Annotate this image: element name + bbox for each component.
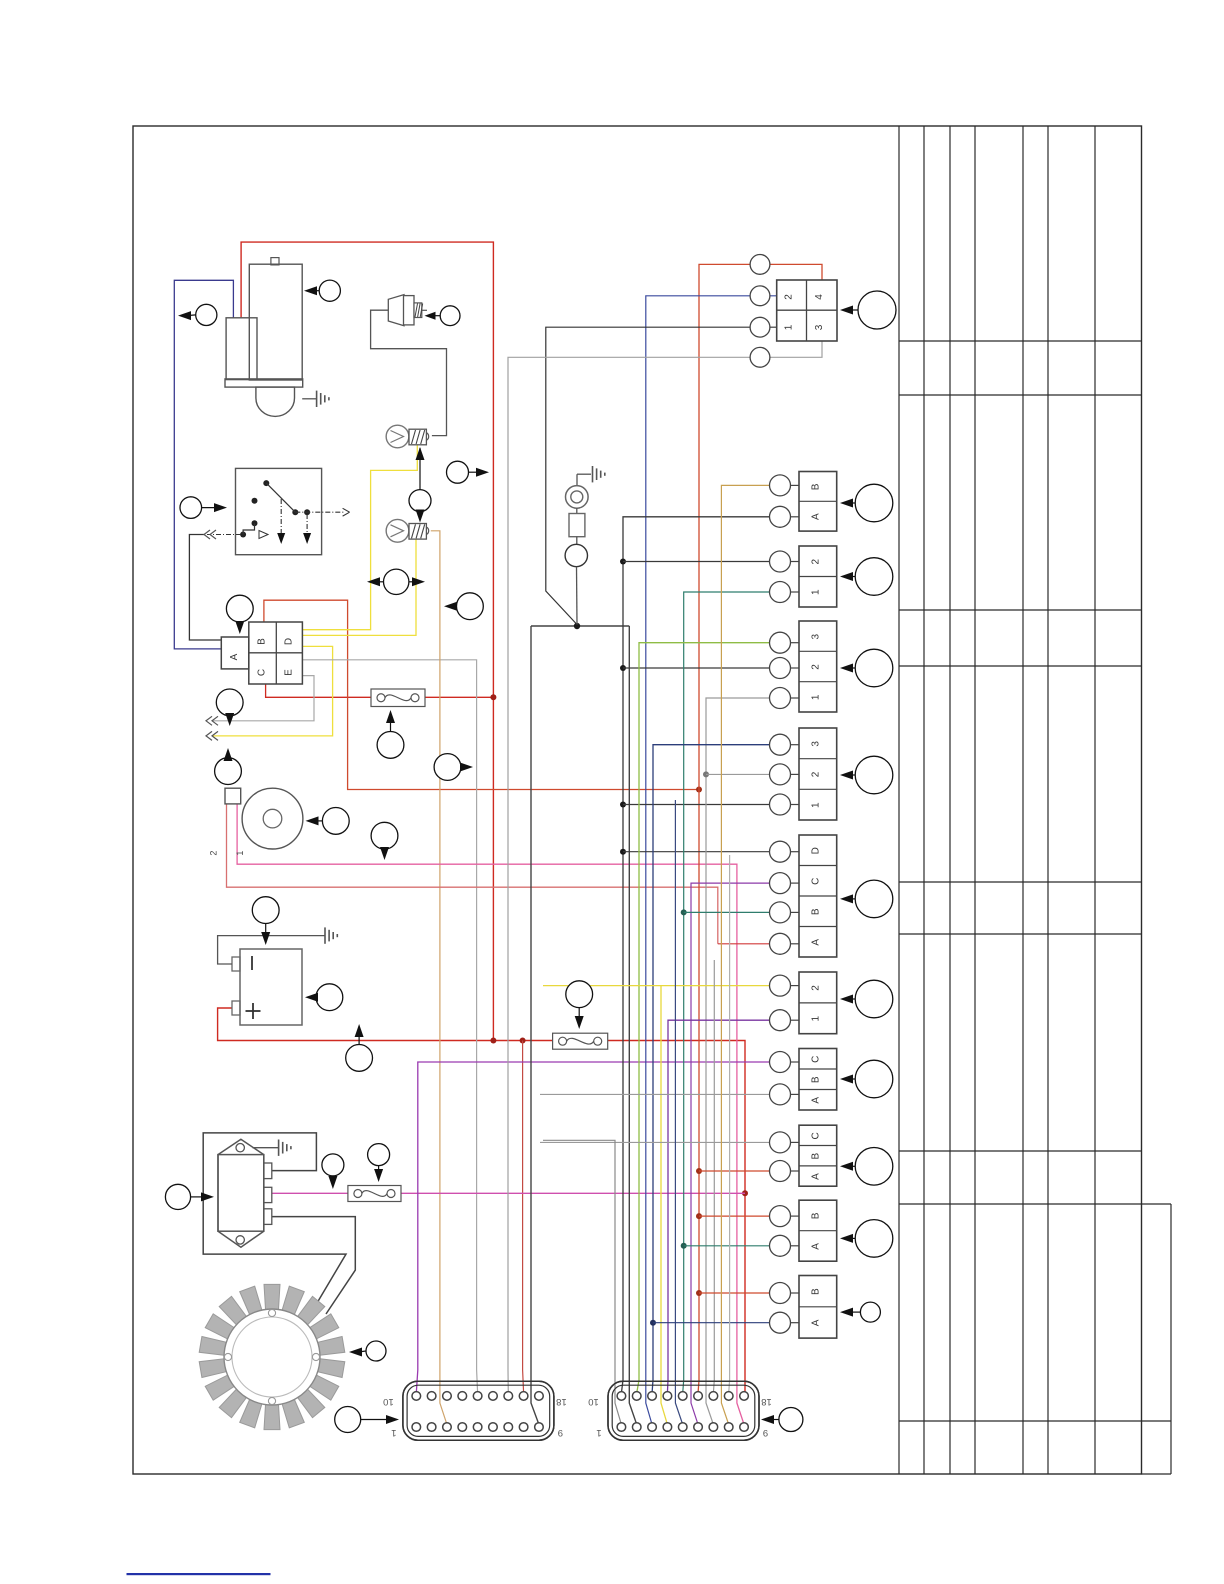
callout: spark plug — [425, 306, 461, 326]
callout: gray stub — [216, 689, 243, 726]
wire: gray run into CN13 top pin 7 — [712, 960, 715, 1393]
regulator/rectifier — [218, 1139, 272, 1247]
fuse F1 — [371, 689, 425, 707]
callout: red main wire — [447, 461, 490, 483]
callout: starter solenoid wire — [178, 304, 217, 325]
wire: pink regulator output through fuse — [272, 1192, 348, 1194]
connector CN8 (A-B-C) — [799, 1049, 837, 1111]
wire: blue starter solenoid — [174, 280, 233, 649]
wire: red fuse branch from connector C — [266, 684, 371, 697]
ignition coil 1 (bulb symbol) — [386, 425, 429, 448]
wire: gray CN1 pin3 — [770, 341, 822, 357]
wire: navy run into CN13 — [675, 800, 682, 1425]
starter motor ground wire — [302, 398, 316, 400]
regulator ground wire — [253, 1147, 279, 1149]
ignition coil 2 (bulb symbol) — [386, 519, 429, 542]
wire: ground bus (U-run to both harness connectors) — [531, 625, 629, 627]
callout: ignition switch — [180, 497, 227, 519]
bullet connectors at CN1 — [750, 255, 770, 275]
wire: tan CN2 pin B — [721, 485, 769, 1424]
svg-text:A: A — [811, 1097, 822, 1104]
svg-text:10: 10 — [383, 1396, 394, 1407]
wire: black ignition switch to connector A — [189, 535, 221, 641]
18-pin connector shells — [403, 1381, 554, 1440]
svg-text:2: 2 — [208, 851, 218, 856]
connector CN4 (1-2-3) — [799, 621, 837, 712]
svg-text:2: 2 — [811, 771, 822, 777]
wire: navy CN5 pin3 — [652, 745, 769, 1393]
callout: CN11 — [840, 1302, 880, 1322]
svg-text:A: A — [229, 653, 240, 660]
svg-text:B: B — [811, 1076, 822, 1083]
wire: navy tap CN11 pin A — [653, 1322, 769, 1324]
spark plug with cap — [388, 295, 427, 326]
svg-text:D: D — [811, 847, 822, 854]
callout: yellow coil feeds (double arrow) — [367, 569, 425, 594]
callout: gray long run — [434, 754, 473, 781]
wire: violet CN6 pin C — [691, 883, 769, 1424]
wire: red branch to harness connector — [523, 1041, 524, 1394]
18-pin connector CN12 (pins 1-18) pins — [403, 1381, 554, 1440]
callout: coils (double arrow) — [409, 447, 431, 523]
wire: black CN1 pin1 — [750, 326, 777, 328]
svg-text:3: 3 — [811, 633, 822, 639]
wire: red tap CN9 pin A — [699, 1170, 769, 1172]
connector CN2 (A-B) — [799, 472, 837, 532]
wire: gray CN4 pin1 — [706, 698, 769, 1425]
svg-text:A: A — [811, 1319, 822, 1326]
fuse F3 — [348, 1186, 401, 1202]
callout: fuse F3 — [368, 1144, 390, 1182]
svg-text:1: 1 — [811, 1016, 822, 1022]
wire: battery positive feed — [218, 1008, 553, 1041]
ground (starter) — [317, 391, 329, 407]
wire: gray CN5 pin2 — [706, 773, 769, 775]
wire: red main feed (starter solenoid to fuse/battery bus) — [241, 242, 493, 1040]
connector CN7 (1-2) — [799, 972, 837, 1034]
callout: regulator pink wire — [322, 1154, 344, 1189]
wire: purple harness run — [416, 1062, 769, 1393]
callout: connector — [840, 1148, 893, 1186]
svg-text:2: 2 — [811, 664, 822, 670]
wire: yellow coil 2 feed — [302, 539, 416, 635]
svg-text:B: B — [811, 1153, 822, 1160]
callout: horn — [306, 808, 350, 835]
svg-text:C: C — [257, 669, 268, 676]
connector CN9 (A-B-C) — [799, 1125, 837, 1186]
svg-text:2: 2 — [784, 294, 795, 300]
svg-text:A: A — [811, 513, 822, 520]
svg-text:B: B — [811, 908, 822, 915]
footer link underline — [127, 1573, 271, 1575]
title block table — [899, 126, 1171, 1474]
wire: blue CN1 pin2 — [750, 295, 777, 297]
wire: black stator loop — [203, 1133, 346, 1303]
svg-text:3: 3 — [811, 741, 822, 747]
18-pin connector CN13 (pins 1-18) pins — [608, 1381, 759, 1440]
battery BAT — [232, 949, 302, 1025]
svg-text:18: 18 — [761, 1396, 772, 1407]
wire: black distribution bus — [621, 517, 769, 1393]
wire: yellow coil 1 feed — [302, 445, 417, 630]
wire: green CN4 pin3 — [637, 643, 769, 1393]
wire: red tap CN10 pin B — [699, 1215, 769, 1217]
svg-text:1: 1 — [811, 589, 822, 595]
callout: connector A — [226, 595, 253, 634]
wire: yellow stub from connector D — [212, 646, 333, 736]
svg-text:9: 9 — [763, 1427, 768, 1438]
svg-text:1: 1 — [784, 324, 795, 330]
callout: connector — [840, 558, 893, 596]
callout: battery — [252, 897, 279, 945]
svg-text:B: B — [811, 483, 822, 490]
wire: gray CN9 pin C — [540, 1141, 769, 1143]
wire: teal CN3 pin1 long run — [683, 592, 769, 1393]
connector CN5 (1-2-3) — [799, 728, 837, 820]
callout: connector — [840, 1060, 893, 1098]
wire: teal tap CN6 pin B — [684, 911, 769, 913]
wire: horn red to CN6 pin A — [718, 943, 769, 945]
wire: purple CN7 pin1 — [667, 1020, 769, 1393]
callout: harness connector CN13 — [761, 1408, 803, 1432]
wire: teal tap CN10 pin A — [684, 1245, 769, 1247]
svg-text:3: 3 — [814, 324, 825, 330]
drawing border frame — [133, 126, 1142, 1474]
callout: CN1 — [840, 291, 896, 329]
connector CN10 (A-B) — [799, 1200, 837, 1261]
svg-text:1: 1 — [811, 802, 822, 808]
svg-text:B: B — [257, 638, 268, 645]
wire: red CN1 pin4 long run — [770, 264, 822, 280]
wire: horn red — [227, 804, 718, 944]
ground (battery) — [325, 927, 337, 943]
callout: harness connector CN12 — [335, 1407, 399, 1433]
svg-text:D: D — [283, 638, 294, 645]
wire: gray corner into CN13 pin1 — [543, 1140, 621, 1424]
ground (ring terminal) — [593, 466, 605, 482]
svg-text:C: C — [811, 1056, 822, 1063]
svg-text:C: C — [811, 1132, 822, 1139]
stator / magneto coil — [199, 1284, 345, 1429]
svg-text:C: C — [811, 878, 822, 885]
callout: connector — [840, 880, 893, 918]
callout: stator — [349, 1341, 386, 1361]
svg-text:2: 2 — [811, 559, 822, 565]
callout: battery feed wire — [346, 1024, 373, 1071]
connector CN11 (A-B) — [799, 1276, 837, 1339]
callout: connector — [840, 484, 893, 522]
callout: connector — [840, 1220, 893, 1258]
svg-text:4: 4 — [814, 294, 825, 300]
horn H1 — [208, 788, 303, 855]
connector CN3 (1-2) — [799, 546, 837, 607]
starter motor M1 — [225, 258, 303, 417]
connector CN6 (A-B-C-D) — [799, 835, 837, 957]
callout: fuse F1 — [377, 710, 404, 758]
svg-text:A: A — [811, 1243, 822, 1250]
callout: connector — [840, 756, 893, 794]
connector block ABCDE (5-pin) — [221, 622, 302, 684]
wire: gray connector E long run — [302, 660, 477, 1393]
wire: gray stub from connector E — [212, 676, 314, 721]
callout: connector — [840, 980, 893, 1018]
callout: horn pink wire — [371, 822, 398, 860]
connector CN1 (4-pin 2x2) — [777, 280, 837, 341]
wire: gray CN8 pin A — [540, 1093, 769, 1095]
svg-text:1: 1 — [596, 1427, 601, 1438]
wire: spark plug lead to coil 1 — [371, 310, 447, 435]
wire: red connector B loop — [264, 600, 699, 789]
svg-text:1: 1 — [391, 1427, 396, 1438]
ring terminal with inline fuse to ground — [565, 474, 591, 624]
battery ground wire — [218, 936, 325, 964]
wire: horn pink — [237, 804, 744, 1425]
svg-text:10: 10 — [588, 1396, 599, 1407]
fuse F2 — [553, 1033, 608, 1049]
callout: yellow stub — [215, 748, 242, 784]
callout: starter motor — [304, 280, 340, 301]
svg-text:9: 9 — [558, 1427, 563, 1438]
wire: gray run into CN13 top pin 8 — [728, 855, 731, 1393]
callout: connector — [840, 649, 893, 687]
callout: tan wire — [444, 593, 483, 620]
wire: tan coil 2 output — [431, 531, 447, 1425]
callout: battery terminal — [305, 984, 343, 1011]
callout: fuse F2 — [566, 981, 593, 1029]
svg-text:A: A — [811, 939, 822, 946]
callout: regulator — [165, 1184, 214, 1209]
ignition switch S1 — [204, 468, 350, 554]
svg-text:E: E — [283, 669, 294, 676]
svg-text:B: B — [811, 1288, 822, 1295]
svg-text:18: 18 — [556, 1396, 567, 1407]
wire: red tap CN11 pin B — [699, 1292, 769, 1294]
svg-text:A: A — [811, 1173, 822, 1180]
svg-text:B: B — [811, 1212, 822, 1219]
wire: yellow CN7 pin2 — [661, 986, 769, 1425]
svg-text:1: 1 — [235, 851, 245, 856]
ground (regulator) — [279, 1140, 291, 1156]
svg-text:2: 2 — [811, 985, 822, 991]
svg-text:1: 1 — [811, 694, 822, 700]
